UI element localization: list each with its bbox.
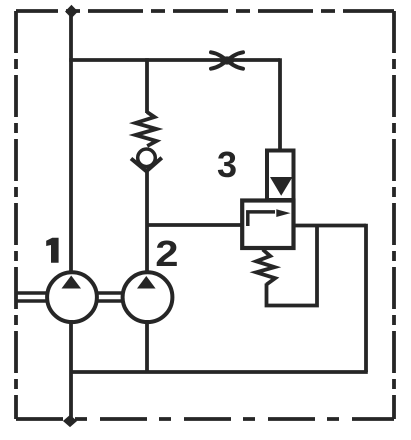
relief valve main body U3 bbox=[242, 201, 293, 249]
svg-text:2: 2 bbox=[155, 234, 178, 274]
enclosure border right bbox=[392, 11, 396, 419]
wire: return line bottom horizontal y=372 bbox=[71, 370, 368, 374]
pump 1 circle bbox=[47, 272, 97, 322]
pump 1 flow triangle (up) bbox=[62, 276, 82, 289]
enclosure border left bbox=[14, 11, 18, 419]
check valve seat bbox=[131, 158, 162, 171]
wire: spring chamber drain down bbox=[267, 224, 318, 306]
wire: pump 1 pressure line (vertical x=71 top) bbox=[69, 11, 73, 274]
wire: vertical drop to pilot stage x=280 bbox=[278, 58, 282, 152]
wire: relief valve inlet line y=225 bbox=[147, 223, 243, 227]
orifice (fixed restriction) on pilot line bbox=[211, 52, 243, 68]
relief valve spring bbox=[256, 250, 275, 285]
pump 2 circle bbox=[123, 272, 173, 322]
pump 2 flow triangle (up) bbox=[137, 276, 156, 289]
label 3 (relief valve) bbox=[217, 144, 237, 185]
enclosure border top bbox=[16, 9, 394, 13]
relief valve pilot triangle (down) bbox=[270, 177, 293, 196]
check valve spring bbox=[136, 112, 157, 146]
label 2 (pump 2) bbox=[155, 234, 178, 274]
wire: pump 1 suction line (vertical x=71 bottom) bbox=[69, 320, 73, 419]
wire: check valve branch lower (x=147 to pump 2) bbox=[145, 170, 149, 274]
label 1 (pump 1) bbox=[46, 238, 58, 263]
wire: top horizontal pilot supply line y=60 bbox=[69, 58, 280, 62]
junction dot: bottom port at boundary bbox=[64, 416, 76, 426]
wire: pump 2 outlet down to return line bbox=[145, 320, 149, 372]
enclosure border bottom bbox=[16, 417, 394, 421]
svg-text:3: 3 bbox=[217, 144, 237, 185]
relief valve pilot box bbox=[267, 151, 294, 201]
wire: check valve branch upper (x=147, y60 to spring) bbox=[145, 58, 149, 113]
relief valve internal flow arrow bbox=[248, 209, 291, 226]
junction dot: top port at boundary bbox=[66, 6, 77, 17]
drive shaft: border to pump 1 (double line) bbox=[16, 293, 46, 301]
check valve ball bbox=[138, 149, 156, 167]
drive shaft: pump 1 to pump 2 (double line) bbox=[97, 293, 123, 301]
wire: return line right vertical x=366 bbox=[364, 224, 368, 372]
wire: relief valve outlet line to right bbox=[294, 224, 367, 228]
